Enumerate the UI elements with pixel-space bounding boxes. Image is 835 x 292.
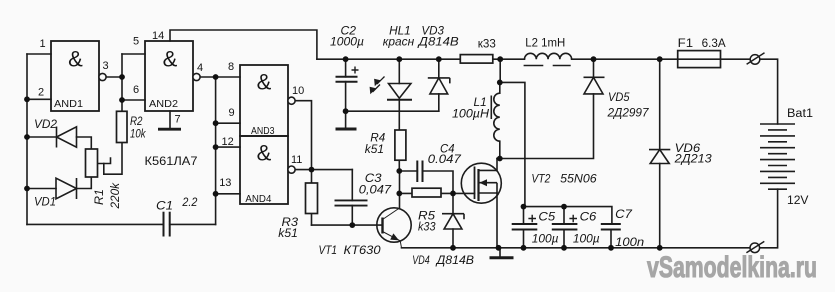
wire HL1 leads xyxy=(398,59,400,129)
capacitor C7 100n xyxy=(601,224,621,230)
resistor R5 k33 xyxy=(412,188,441,197)
node pin6 junction xyxy=(119,97,125,103)
zener VD3 D814V xyxy=(428,78,450,94)
node bubble pin 4 xyxy=(193,73,200,80)
wire pin 7 to ground xyxy=(169,111,171,128)
svg-text:&: & xyxy=(68,47,83,72)
resistor k33 (top rail) xyxy=(460,55,493,64)
wire connector to battery top xyxy=(759,59,778,124)
svg-text:11: 11 xyxy=(291,154,302,166)
wire pin 14 VDD xyxy=(170,30,317,59)
svg-text:2.2: 2.2 xyxy=(182,195,198,209)
svg-text:2Д213: 2Д213 xyxy=(674,152,712,166)
wire node pin3 to pins 5-6 vertical xyxy=(121,54,123,100)
wire VT2 drain vertical xyxy=(496,159,498,171)
wire L2-L1 junction vertical xyxy=(499,59,501,82)
capacitor C5 100u xyxy=(512,224,538,230)
node VD1 junction xyxy=(24,186,30,192)
svg-text:10k: 10k xyxy=(130,127,146,141)
capacitor C2 1000u xyxy=(336,77,358,82)
svg-text:8: 8 xyxy=(228,61,234,73)
node VD2 junction xyxy=(24,134,30,140)
node bubble pin 10 xyxy=(288,97,295,104)
node C5 top xyxy=(521,204,527,210)
diode VD6 2D213 xyxy=(649,150,670,164)
svg-text:2Д2997: 2Д2997 xyxy=(607,106,650,120)
wire R2 top lead xyxy=(121,100,123,111)
wire VD5 top lead xyxy=(593,59,595,77)
node plus sign C5 xyxy=(528,215,536,222)
node plus sign C2 xyxy=(352,67,359,74)
wire VT1 base xyxy=(312,224,383,226)
wire top rail L2 to F1 xyxy=(572,58,678,60)
svg-text:3: 3 xyxy=(103,60,109,72)
op-amp gate AND1 xyxy=(51,41,99,111)
wire left supply bus xyxy=(26,54,28,224)
LED HL1 red xyxy=(387,84,412,100)
svg-text:VD2: VD2 xyxy=(34,117,57,131)
wire R1 wiper tap xyxy=(98,158,111,164)
node VD5 top xyxy=(591,56,597,62)
capacitor C3 0,047 xyxy=(335,200,368,205)
svg-text:R1: R1 xyxy=(92,189,106,205)
diode VD2 xyxy=(57,127,77,148)
resistor R3 k51 xyxy=(306,183,318,214)
node k33-L2 junction xyxy=(497,56,503,62)
svg-text:VD4: VD4 xyxy=(412,253,429,267)
wire top rail left segment xyxy=(317,58,460,60)
svg-text:100µH: 100µH xyxy=(452,106,489,120)
svg-text:12V: 12V xyxy=(787,195,809,207)
node L2 core dashes xyxy=(524,65,571,67)
node pin2 junction xyxy=(24,96,30,102)
svg-text:10: 10 xyxy=(292,85,304,97)
wire pin 9 input xyxy=(216,122,240,124)
svg-text:L2 1mH: L2 1mH xyxy=(525,38,565,50)
svg-text:&: & xyxy=(257,70,272,95)
wire C6 leads xyxy=(563,207,565,248)
svg-text:Bat1: Bat1 xyxy=(787,108,813,120)
wire ground stub near VD4 xyxy=(499,248,501,257)
svg-text:7: 7 xyxy=(175,114,181,126)
wire drain rail to VD5 anode xyxy=(497,94,594,159)
node bubble pin 11 xyxy=(288,166,295,173)
svg-text:AND1: AND1 xyxy=(54,98,83,110)
wire pin 4 output to pin 8 xyxy=(200,76,240,78)
svg-text:6.3A: 6.3A xyxy=(702,38,726,50)
node source-ground junction xyxy=(496,245,502,251)
wire bypass L1-top to C5 rail xyxy=(500,82,525,206)
wire pin 2 input xyxy=(27,98,51,100)
svg-text:C7: C7 xyxy=(615,207,633,221)
wire gate node to VT2 gate xyxy=(453,192,475,194)
battery Bat1 xyxy=(760,124,795,189)
node pin13 bus junction xyxy=(213,191,219,197)
node L1 top junction xyxy=(497,80,503,86)
node pin3-pin5 junction xyxy=(119,74,125,80)
wire C4 right to gate node xyxy=(423,171,454,193)
svg-text:9: 9 xyxy=(229,107,235,119)
wire R3 leads xyxy=(311,170,313,226)
diode VD1 xyxy=(56,178,77,199)
node C3 base junction xyxy=(349,222,355,228)
wire bottom rail xyxy=(402,247,750,249)
op-amp gate AND4 xyxy=(240,136,288,204)
wire C5 leads xyxy=(523,207,525,248)
wire C4 left lead xyxy=(399,170,417,172)
connector top (plug) xyxy=(747,53,765,64)
node C2 top xyxy=(343,56,349,62)
node C6 top xyxy=(561,204,567,210)
svg-text:VD1: VD1 xyxy=(34,195,56,209)
svg-text:К561ЛА7: К561ЛА7 xyxy=(145,156,198,168)
node VD6 bottom xyxy=(657,245,663,251)
node HL1 top xyxy=(396,56,402,62)
svg-text:VT1: VT1 xyxy=(319,243,338,257)
wire pin 3 output xyxy=(106,76,122,78)
svg-text:100n: 100n xyxy=(615,235,644,249)
node pin12 bus junction xyxy=(213,144,219,150)
svg-text:VD5: VD5 xyxy=(608,90,630,104)
wire pin 12 input xyxy=(216,146,240,148)
wire R2 bottom to R1 wiper xyxy=(104,143,122,175)
ground near VD4 xyxy=(490,256,514,259)
svg-text:k51: k51 xyxy=(278,226,298,240)
svg-text:5: 5 xyxy=(133,36,139,48)
svg-text:14: 14 xyxy=(152,30,164,42)
node pin8 bus junction xyxy=(213,74,219,80)
capacitor C4 0.047 xyxy=(417,161,422,183)
wire L1 top lead xyxy=(499,82,501,93)
node VD4 bottom xyxy=(450,245,456,251)
diode VD5 2D2997 xyxy=(584,77,605,94)
wire VD1 leads xyxy=(27,177,91,189)
svg-text:4: 4 xyxy=(197,62,203,74)
node VD6-F1 junction xyxy=(657,56,663,62)
node pin9 bus junction xyxy=(213,120,219,126)
svg-text:к33: к33 xyxy=(478,38,496,50)
node plus sign C6 xyxy=(569,215,577,222)
svg-text:1000µ: 1000µ xyxy=(330,35,364,49)
svg-text:C6: C6 xyxy=(580,210,597,224)
svg-text:55N06: 55N06 xyxy=(560,171,597,185)
node R4-C4-collector junction xyxy=(396,168,402,174)
svg-text:k33: k33 xyxy=(418,220,436,234)
wire pin 6 input xyxy=(122,99,145,101)
node C7 bottom xyxy=(608,245,614,251)
wire VD4 leads xyxy=(452,193,454,247)
svg-text:C5: C5 xyxy=(538,210,555,224)
node pin10-11 junction xyxy=(309,167,315,173)
svg-text:Д814В: Д814В xyxy=(417,35,459,49)
node R5-collector junction xyxy=(396,191,402,197)
node gate-VD4-C4 junction xyxy=(450,191,456,197)
svg-text:6: 6 xyxy=(133,84,139,96)
svg-text:&: & xyxy=(163,47,178,72)
wire pin 1 input xyxy=(27,53,51,55)
svg-text:k51: k51 xyxy=(365,142,384,156)
wire C7 bottom lead xyxy=(610,230,612,248)
svg-text:220k: 220k xyxy=(108,182,122,209)
ground pin 7 xyxy=(158,128,181,131)
op-amp gate AND2 xyxy=(145,41,193,111)
wire VT1 collector vertical xyxy=(399,171,401,209)
wire VD2 anode-cathode leads xyxy=(27,137,91,149)
zener VD4 D814V xyxy=(442,214,464,229)
svg-text:0.047: 0.047 xyxy=(428,152,462,166)
resistor R4 k51 xyxy=(395,130,406,160)
wire R5 leads xyxy=(399,192,453,194)
svg-text:AND4: AND4 xyxy=(245,193,271,205)
wire bottom left to C1 xyxy=(27,223,164,225)
inductor L2 1mH xyxy=(525,53,572,59)
resistor R2 10k xyxy=(117,111,128,142)
svg-text:красн: красн xyxy=(383,35,415,49)
wire top rail F1 to connector xyxy=(721,58,750,60)
wire bottom rail connector to battery xyxy=(759,189,778,248)
svg-text:1: 1 xyxy=(40,38,46,50)
wire pin 13 input xyxy=(216,193,240,195)
svg-text:&: & xyxy=(257,141,272,166)
value and reference labels xyxy=(34,24,813,267)
svg-text:VT2: VT2 xyxy=(531,171,550,185)
svg-text:13: 13 xyxy=(219,177,231,189)
capacitor C6 100u xyxy=(552,224,578,230)
node VD3 top xyxy=(436,56,442,62)
op-amp gate AND3 xyxy=(240,65,288,136)
node L1 core bar xyxy=(490,96,492,120)
inductor L1 100uH xyxy=(494,93,500,141)
fuse F1 6.3A xyxy=(678,51,721,68)
svg-text:AND2: AND2 xyxy=(149,98,178,110)
transistor VT1 KT630 xyxy=(377,208,411,248)
wire R4 bottom lead xyxy=(398,160,400,171)
connector bottom (plug) xyxy=(746,241,764,252)
svg-text:КТ630: КТ630 xyxy=(344,243,381,257)
wire VD6 leads xyxy=(659,59,661,248)
wire top rail k33 to L2 xyxy=(493,58,525,60)
node drain-L1 junction xyxy=(497,156,503,162)
wire L1 bottom lead xyxy=(499,141,501,158)
wire C1 to gate input bus xyxy=(170,223,216,225)
wire pin 5 input xyxy=(122,53,145,55)
svg-text:100µ: 100µ xyxy=(573,232,600,246)
transistor VT2 55N06 mosfet xyxy=(461,163,501,203)
wire gate input bus vertical xyxy=(215,77,217,224)
pin number labels xyxy=(38,30,304,189)
svg-text:F1: F1 xyxy=(678,38,693,50)
svg-text:100µ: 100µ xyxy=(532,232,559,246)
capacitor C1 2.2 xyxy=(164,212,170,237)
svg-text:C1: C1 xyxy=(156,199,173,213)
ground below C2 xyxy=(336,128,357,131)
node bubble pin 3 xyxy=(99,73,106,80)
svg-text:vSamodelkina.ru: vSamodelkina.ru xyxy=(647,251,817,284)
svg-text:12: 12 xyxy=(222,136,234,148)
wire pin 11 output xyxy=(295,169,352,171)
svg-text:2: 2 xyxy=(38,87,44,99)
node C5 bottom xyxy=(521,245,527,251)
wire pin 10 output down to pin 11 net xyxy=(295,101,312,170)
resistor R1 220k trimmer xyxy=(86,149,98,177)
wire C2 leads and ground lead xyxy=(345,59,347,127)
wire C3 leads xyxy=(351,170,353,226)
node HL1 emission arrows xyxy=(373,77,385,93)
node C6 bottom xyxy=(561,245,567,251)
node C2 bottom junction xyxy=(343,108,349,114)
wire output cap top rail xyxy=(525,207,612,224)
wire C2 to VD3 bottom xyxy=(346,110,439,112)
svg-text:0,047: 0,047 xyxy=(359,183,392,197)
wire VD3 leads xyxy=(438,59,440,111)
wire VT2 source vertical xyxy=(496,193,498,248)
svg-text:Д814В: Д814В xyxy=(435,253,474,267)
